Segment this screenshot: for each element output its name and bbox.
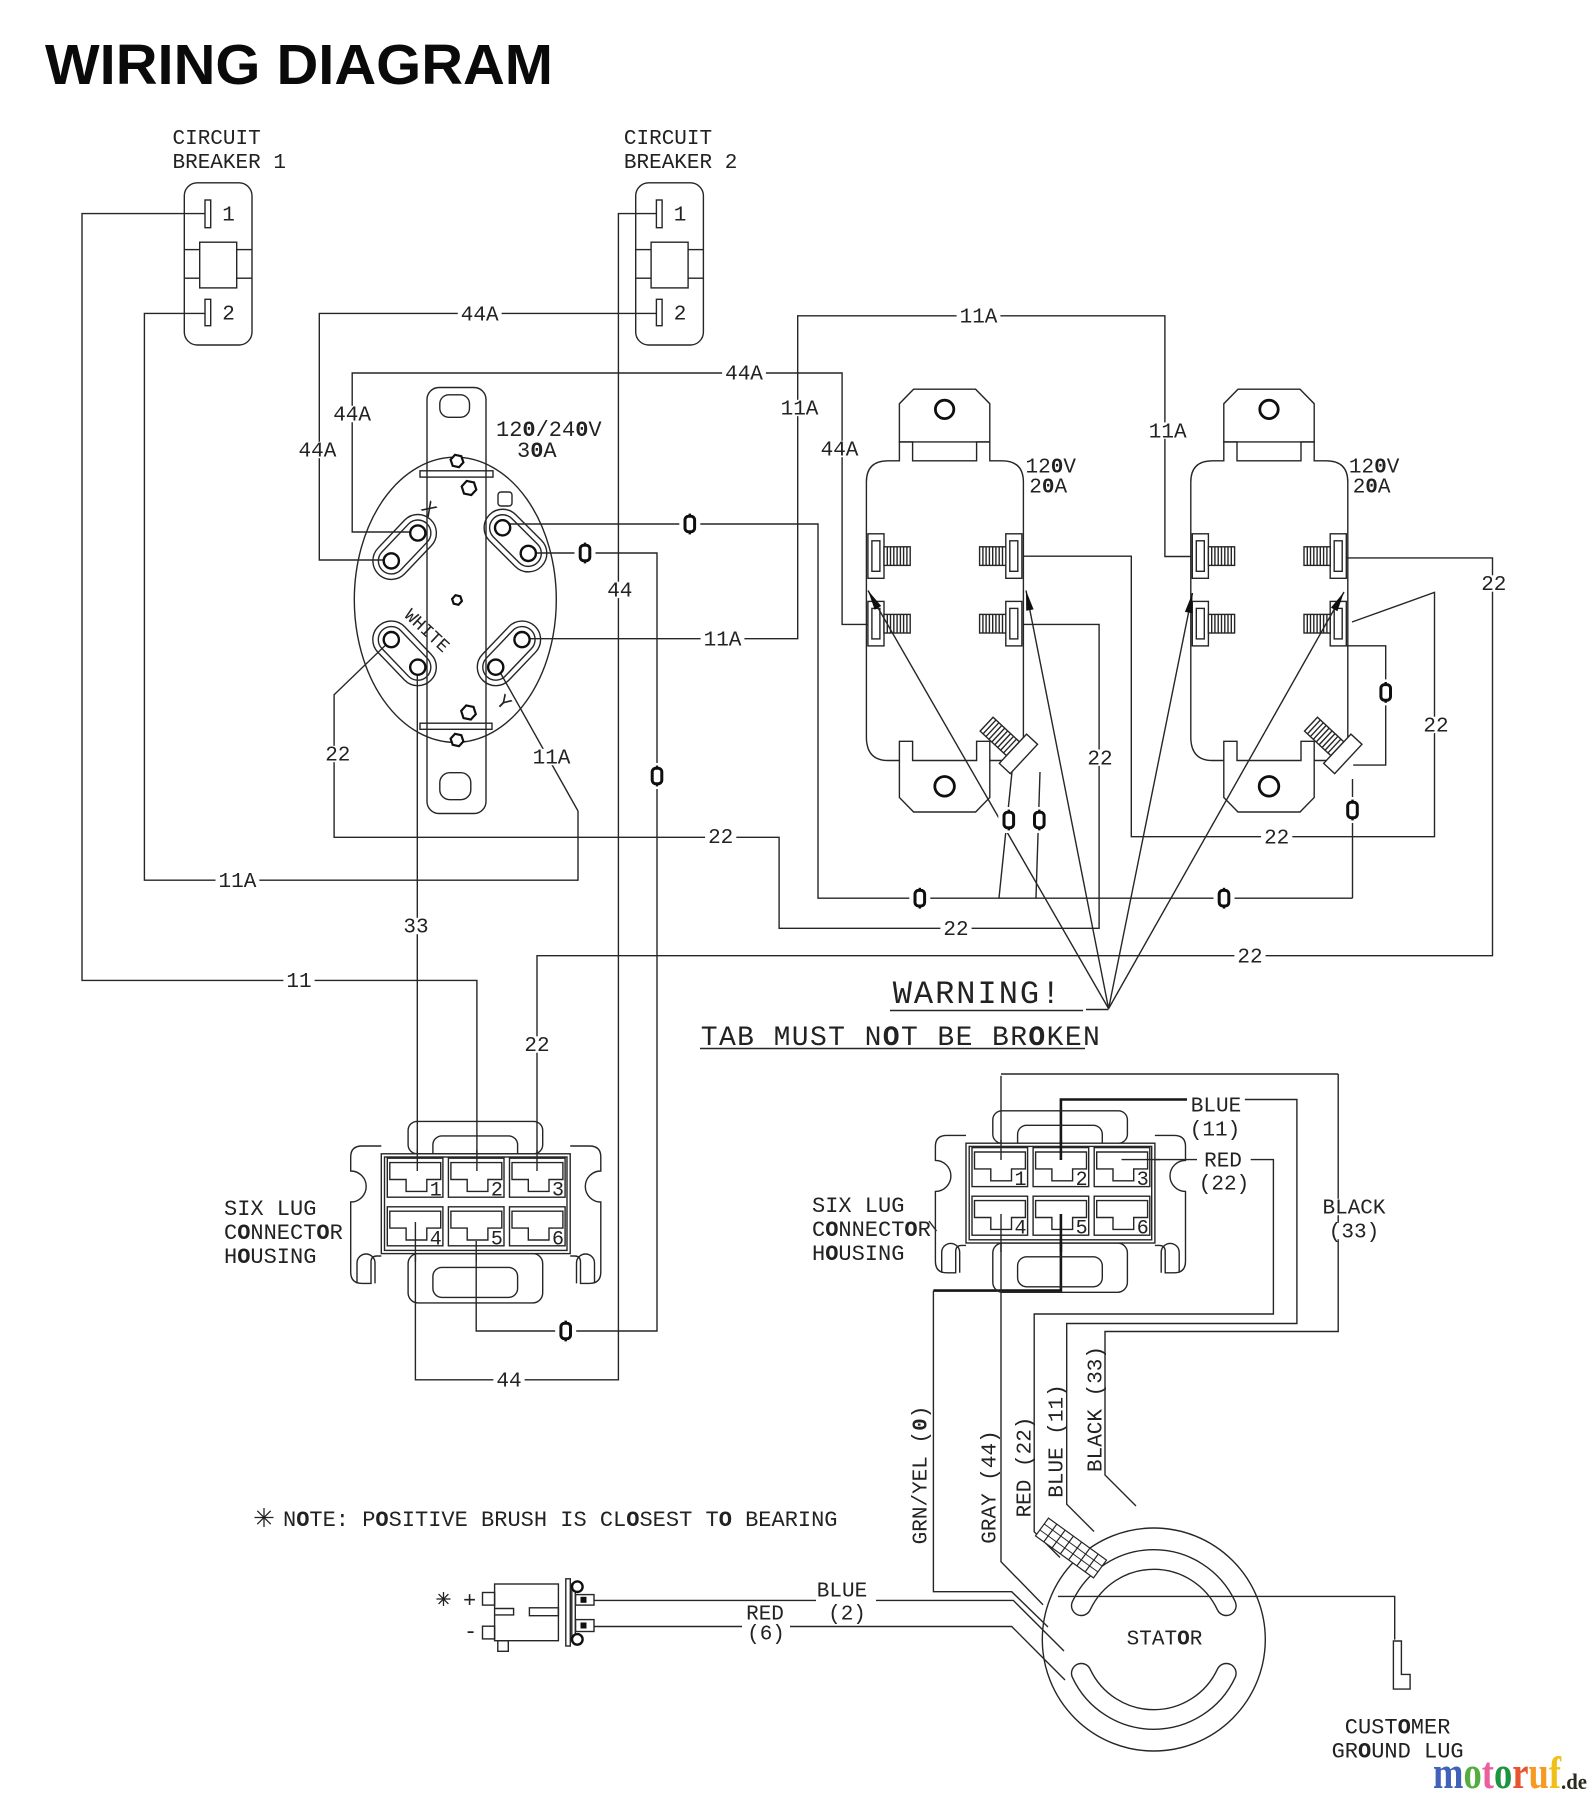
svg-text:22: 22	[1481, 574, 1506, 597]
svg-text:BLACK: BLACK	[1322, 1198, 1385, 1221]
svg-text:(6): (6)	[747, 1624, 785, 1647]
svg-text:4: 4	[430, 1228, 442, 1251]
label RED 22	[1201, 1151, 1245, 1167]
wire net 22 from receptacle WHITE to duplex1 lower-right terminal	[334, 624, 1099, 928]
svg-text:11A: 11A	[533, 748, 571, 771]
inline connector 0	[998, 807, 1019, 833]
wire stub slot5 right	[1060, 1214, 1063, 1252]
wire net 33 receptacle WHITE to connector slot1	[416, 667, 418, 1171]
wire RED 22 to stator harness	[1034, 1160, 1273, 1558]
wire stub slot1 right	[1000, 1140, 1002, 1160]
line to duplex2 right tab	[1109, 592, 1344, 1009]
label 44A top middle	[722, 365, 766, 381]
six lug connector housing 1	[351, 1121, 601, 1303]
svg-text:1: 1	[222, 205, 235, 228]
wire net 11A from CB1 pin2	[144, 313, 578, 880]
wire net 0 from receptacle D to ground bus	[503, 524, 1353, 898]
svg-text:44: 44	[607, 581, 632, 604]
svg-text:22: 22	[708, 827, 733, 850]
svg-text:2: 2	[1076, 1169, 1088, 1192]
svg-text:5: 5	[1076, 1218, 1088, 1241]
label 22 g	[1478, 575, 1509, 591]
label 22 f	[1261, 829, 1292, 845]
wire net 44A from CB2 pin2 to receptacle X	[319, 313, 656, 560]
wire duplex2 lower-right terminal to mounting screw	[1347, 646, 1386, 765]
svg-text:2: 2	[222, 304, 235, 327]
svg-text:22: 22	[943, 919, 968, 942]
label RED 6	[743, 1605, 787, 1621]
wire RED 6 brush	[594, 1626, 742, 1628]
wire GRN-YEL 0 to stator	[933, 1291, 1048, 1627]
label GRN/YEL 0 rotated	[911, 1403, 934, 1548]
svg-text:WARNING!: WARNING!	[893, 976, 1063, 1013]
svg-text:2: 2	[491, 1180, 503, 1203]
label BLUE 2	[814, 1582, 870, 1598]
inline connector 0	[555, 1318, 576, 1344]
svg-text:TAB MUST NOT BE BROKEN: TAB MUST NOT BE BROKEN	[701, 1023, 1101, 1054]
label 22 c	[940, 920, 971, 936]
wire duplex1 screw to ground bus A	[999, 772, 1012, 898]
svg-text:11A: 11A	[1149, 421, 1187, 444]
wire stub slot5 left	[475, 1241, 477, 1262]
svg-text:6: 6	[552, 1228, 564, 1251]
svg-text:11A: 11A	[218, 871, 256, 894]
wire BLACK 33 horizontal to slot1	[1001, 1073, 1338, 1075]
wire RED 6 to stator	[790, 1627, 1065, 1681]
svg-text:CIRCUIT: CIRCUIT	[173, 128, 261, 151]
svg-text:WIRING DIAGRAM: WIRING DIAGRAM	[45, 33, 553, 97]
svg-text:33: 33	[403, 917, 428, 940]
svg-text:1: 1	[674, 205, 687, 228]
svg-text:BREAKER 1: BREAKER 1	[173, 152, 286, 175]
svg-text:HOUSING: HOUSING	[812, 1242, 904, 1267]
wire stator frame to customer ground lug	[1058, 1596, 1395, 1639]
label 22 a	[322, 746, 353, 762]
svg-text:4: 4	[1015, 1218, 1027, 1241]
inline connector 0	[909, 885, 930, 911]
wire duplex1 screw to ground bus B	[1036, 772, 1040, 898]
note text	[255, 1508, 274, 1527]
svg-text:(11): (11)	[1190, 1120, 1240, 1143]
wire net 44 from CB2 pin1 to connector slot4	[415, 214, 656, 1380]
inline connector 0	[647, 763, 668, 789]
svg-text:22: 22	[1237, 946, 1262, 969]
svg-text:20A: 20A	[1029, 477, 1067, 500]
label 44 bottom	[493, 1372, 524, 1388]
customer ground lug	[1393, 1641, 1410, 1689]
wire stub slot4 right	[1000, 1214, 1002, 1252]
wire net 11A diagonal to receptacle slot Y	[496, 665, 578, 811]
label 11	[283, 972, 314, 988]
inline connector 0	[1342, 797, 1363, 823]
wire stub slot2 right	[1060, 1140, 1063, 1160]
svg-text:RED (22): RED (22)	[1015, 1417, 1038, 1518]
duplex receptacle 1 120V 20A	[866, 389, 1037, 812]
wire stub slot1 left	[416, 1150, 418, 1171]
label 22 h	[1234, 948, 1265, 964]
wire BLACK 33 to stator harness	[1105, 1074, 1338, 1506]
circuit breaker 2	[636, 183, 704, 345]
wire BLACK 33 drop into slot1	[1000, 1076, 1002, 1160]
svg-text:GRN/YEL (0): GRN/YEL (0)	[911, 1406, 934, 1545]
line to duplex1 right tab	[1026, 591, 1109, 1009]
svg-text:22: 22	[1087, 748, 1112, 771]
svg-text:11A: 11A	[704, 629, 742, 652]
svg-text:44A: 44A	[461, 304, 499, 327]
label GRAY 44 rotated	[980, 1427, 1003, 1546]
svg-text:3: 3	[1137, 1169, 1149, 1192]
wire RED 22 slot3 to label	[1122, 1159, 1198, 1161]
wire net 11 from CB1 pin1 to connector slot2	[82, 214, 477, 1171]
svg-text:5: 5	[491, 1228, 503, 1251]
inline connector 0	[1029, 807, 1050, 833]
svg-text:STATOR: STATOR	[1127, 1629, 1203, 1652]
svg-text:3: 3	[552, 1180, 564, 1203]
label 44A x slot	[330, 406, 374, 422]
brush holder assembly	[483, 1579, 595, 1651]
inline connector 0	[1214, 885, 1235, 911]
label 11A receptacle	[701, 631, 745, 647]
label 11A top	[957, 308, 1001, 324]
wire net 22 duplex1 upper-right to duplex2 lower-right	[1023, 556, 1434, 837]
svg-text:RED: RED	[1204, 1150, 1242, 1173]
inline connector 0	[1375, 679, 1396, 705]
svg-text:44: 44	[496, 1371, 521, 1394]
svg-text:SIX LUG: SIX LUG	[224, 1197, 316, 1222]
wire BLUE 11 to stator harness	[1067, 1100, 1297, 1532]
svg-text:6: 6	[1137, 1218, 1149, 1241]
svg-text:CONNECTOR: CONNECTOR	[224, 1221, 343, 1246]
svg-text:44A: 44A	[821, 440, 859, 463]
wire BLUE 2 brush	[594, 1599, 816, 1601]
wire stub slot4 left	[414, 1222, 416, 1262]
inline connector 0	[679, 511, 700, 537]
receptacle strap screws	[451, 455, 464, 467]
svg-text:motoruf: motoruf	[1433, 1747, 1562, 1798]
wire net 22 duplex2 upper-right to connector slot3	[537, 558, 1493, 1171]
svg-text:1: 1	[1015, 1169, 1027, 1192]
svg-text:GRAY (44): GRAY (44)	[980, 1430, 1003, 1543]
svg-text:(33): (33)	[1329, 1222, 1379, 1245]
wire BLUE 2 to stator	[876, 1600, 1064, 1651]
svg-text:(2): (2)	[828, 1604, 866, 1627]
wire net 44A from receptacle X to duplex receptacle 1	[352, 373, 868, 624]
line to duplex1 left tab	[868, 591, 1109, 1009]
svg-text:BLUE (11): BLUE (11)	[1047, 1384, 1070, 1497]
label 11A riser	[778, 400, 822, 416]
svg-text:HOUSING: HOUSING	[224, 1245, 316, 1270]
receptacle slot D neutral	[476, 502, 554, 580]
label 11A cb1	[216, 872, 260, 888]
label BLACK 33 rotated	[1086, 1343, 1109, 1475]
svg-text:(22): (22)	[1199, 1174, 1249, 1197]
label 22 b	[705, 828, 736, 844]
wire stub slot3 right	[1122, 1159, 1161, 1161]
line to duplex2 left tab	[1109, 593, 1193, 1009]
svg-text:BLUE: BLUE	[817, 1581, 867, 1604]
wire net 0 riser duplex2 screw to bus	[1352, 779, 1354, 898]
svg-text:BLUE: BLUE	[1191, 1096, 1241, 1119]
svg-text:BREAKER 2: BREAKER 2	[624, 152, 737, 175]
svg-text:20A: 20A	[1353, 477, 1391, 500]
svg-text:CONNECTOR: CONNECTOR	[812, 1218, 931, 1243]
label 44A left vertical	[296, 442, 340, 458]
svg-text:NOTE: POSITIVE BRUSH IS CLOSES: NOTE: POSITIVE BRUSH IS CLOSEST TO BEARI…	[283, 1508, 838, 1533]
six lug connector housing 2	[935, 1111, 1185, 1293]
svg-text:1: 1	[430, 1180, 442, 1203]
pointer dash from label to housing 2	[929, 1221, 937, 1231]
svg-text:SIX LUG: SIX LUG	[812, 1194, 904, 1219]
label 44A duplex1	[818, 441, 862, 457]
svg-text:22: 22	[1423, 716, 1448, 739]
label BLUE 11	[1188, 1097, 1244, 1113]
receptacle slot WHITE	[365, 613, 444, 693]
svg-text:44A: 44A	[298, 441, 336, 464]
label 44 vertical	[604, 582, 635, 598]
svg-text:CUSTOMER: CUSTOMER	[1345, 1715, 1451, 1740]
wire net 0 from receptacle D to connector slot5	[476, 553, 657, 1331]
svg-text:22: 22	[1264, 827, 1289, 850]
svg-text:CIRCUIT: CIRCUIT	[624, 128, 712, 151]
label BLACK 33	[1320, 1199, 1389, 1215]
label 22 d	[1084, 750, 1115, 766]
label 11A duplex2	[1146, 422, 1190, 438]
label 22 e	[1420, 717, 1451, 733]
svg-text:11A: 11A	[781, 399, 819, 422]
stator cable sheath	[1036, 1518, 1107, 1578]
svg-text:11A: 11A	[960, 307, 998, 330]
label brush polarity asterisk	[437, 1592, 451, 1606]
label RED 22 rotated	[1015, 1414, 1038, 1521]
svg-text:BLACK (33): BLACK (33)	[1086, 1346, 1109, 1472]
label 33	[400, 918, 431, 934]
receptacle slot Y	[470, 613, 549, 693]
wire BLUE 11 slot2 bold	[1061, 1100, 1187, 1161]
svg-text:-: -	[464, 1620, 477, 1645]
svg-text:2: 2	[674, 304, 687, 327]
svg-text:30A: 30A	[517, 439, 557, 464]
wire stub slot2 left	[476, 1150, 478, 1171]
label 11A diagonal	[530, 749, 574, 765]
stator	[1042, 1528, 1265, 1751]
label 22 i	[521, 1036, 552, 1052]
svg-text:.de: .de	[1561, 1769, 1587, 1794]
warning underline tick	[1086, 1009, 1109, 1011]
svg-text:22: 22	[524, 1035, 549, 1058]
svg-text:11: 11	[286, 971, 311, 994]
label 44A cb2	[458, 305, 502, 321]
svg-text:44A: 44A	[333, 405, 371, 428]
wire net 11A from receptacle Y to duplex receptacle 2	[524, 316, 1191, 639]
inline connector 0	[575, 540, 596, 566]
svg-text:+: +	[463, 1589, 476, 1614]
svg-text:22: 22	[325, 745, 350, 768]
label BLUE 11 rotated	[1047, 1381, 1070, 1500]
duplex receptacle 2 120V 20A	[1191, 389, 1362, 812]
wire GRAY 44 slot4 to stator harness	[1001, 1230, 1043, 1605]
receptacle 120/240V 30A	[354, 388, 556, 814]
circuit breaker 1	[184, 183, 252, 345]
wire stub slot3 left	[536, 1150, 538, 1171]
svg-text:44A: 44A	[725, 364, 763, 387]
receptacle slot X	[365, 507, 444, 587]
wire GRN-YEL 0 slot5 bold	[933, 1225, 1061, 1291]
